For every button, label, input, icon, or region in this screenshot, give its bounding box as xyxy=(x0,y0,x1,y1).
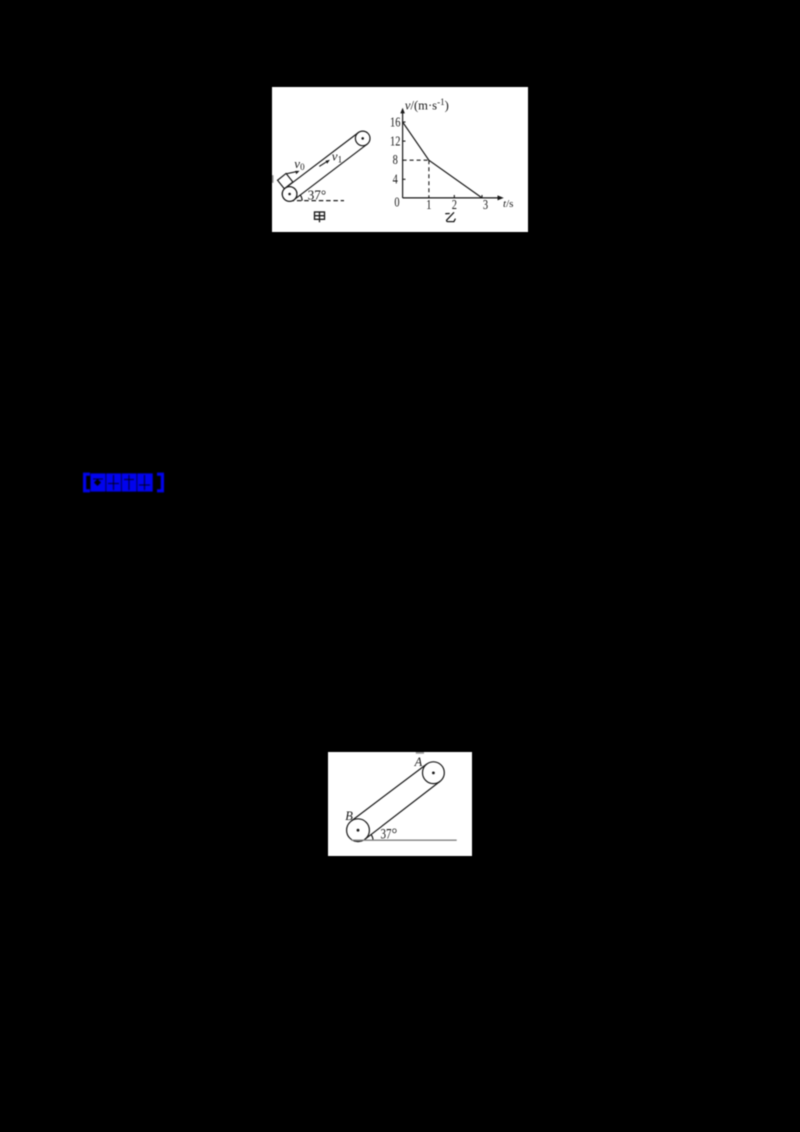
left bracket xyxy=(85,474,163,491)
axis ticks xyxy=(403,122,482,198)
pulley center dots xyxy=(357,829,360,832)
svg-text:1: 1 xyxy=(426,197,431,212)
jia glyph (drawn) xyxy=(315,212,325,222)
dark glyph texture xyxy=(93,475,150,490)
svg-text:4: 4 xyxy=(393,172,398,187)
ground line xyxy=(351,839,456,841)
figure panel jia/yi (conveyor + v-t graph) xyxy=(272,87,528,232)
v(t) polyline xyxy=(403,122,482,198)
svg-text:37°: 37° xyxy=(308,187,327,202)
stray gray dash at top xyxy=(416,752,424,754)
svg-text:A: A xyxy=(414,755,423,769)
angle arc xyxy=(300,195,302,201)
stray gray tick at panel left edge xyxy=(272,175,274,183)
axis arrowheads xyxy=(400,108,405,114)
pulley lower xyxy=(282,187,297,202)
angle arc xyxy=(371,835,373,841)
svg-text:37°: 37° xyxy=(381,826,398,842)
svg-text:8: 8 xyxy=(393,152,398,167)
belt lower line xyxy=(294,144,367,200)
svg-text:v1: v1 xyxy=(332,149,342,165)
belt upper line xyxy=(285,133,358,189)
belt upper line xyxy=(351,764,427,821)
pulley circles redrawn over block xyxy=(282,187,297,202)
figure panel A/B conveyor xyxy=(328,752,472,856)
svg-text:t/s: t/s xyxy=(503,198,513,210)
right bracket xyxy=(157,474,162,491)
svg-text:v/(m·s-1): v/(m·s-1) xyxy=(405,97,449,113)
pulley upper xyxy=(355,131,370,146)
svg-text:v0: v0 xyxy=(294,156,305,172)
svg-text:2: 2 xyxy=(452,197,457,212)
pulley center dots xyxy=(288,193,291,196)
char blobs xyxy=(91,473,153,491)
block on belt xyxy=(278,173,293,188)
pulley B xyxy=(347,819,370,842)
v0 arrow xyxy=(286,171,299,174)
svg-text:3: 3 xyxy=(483,197,488,212)
pulley A xyxy=(423,762,445,784)
dashed horizontal line xyxy=(290,200,344,202)
v-t graph axes xyxy=(403,111,501,198)
svg-text:12: 12 xyxy=(390,134,400,149)
dashed guide lines at (1,8) xyxy=(403,160,429,198)
svg-text:B: B xyxy=(345,809,353,823)
v1 arrow xyxy=(319,160,330,167)
blue answer-link text (blurred) xyxy=(81,471,165,494)
belt lower line xyxy=(365,781,440,839)
yi glyph (drawn) xyxy=(446,213,455,222)
svg-text:16: 16 xyxy=(390,114,401,129)
svg-text:0: 0 xyxy=(394,195,399,210)
